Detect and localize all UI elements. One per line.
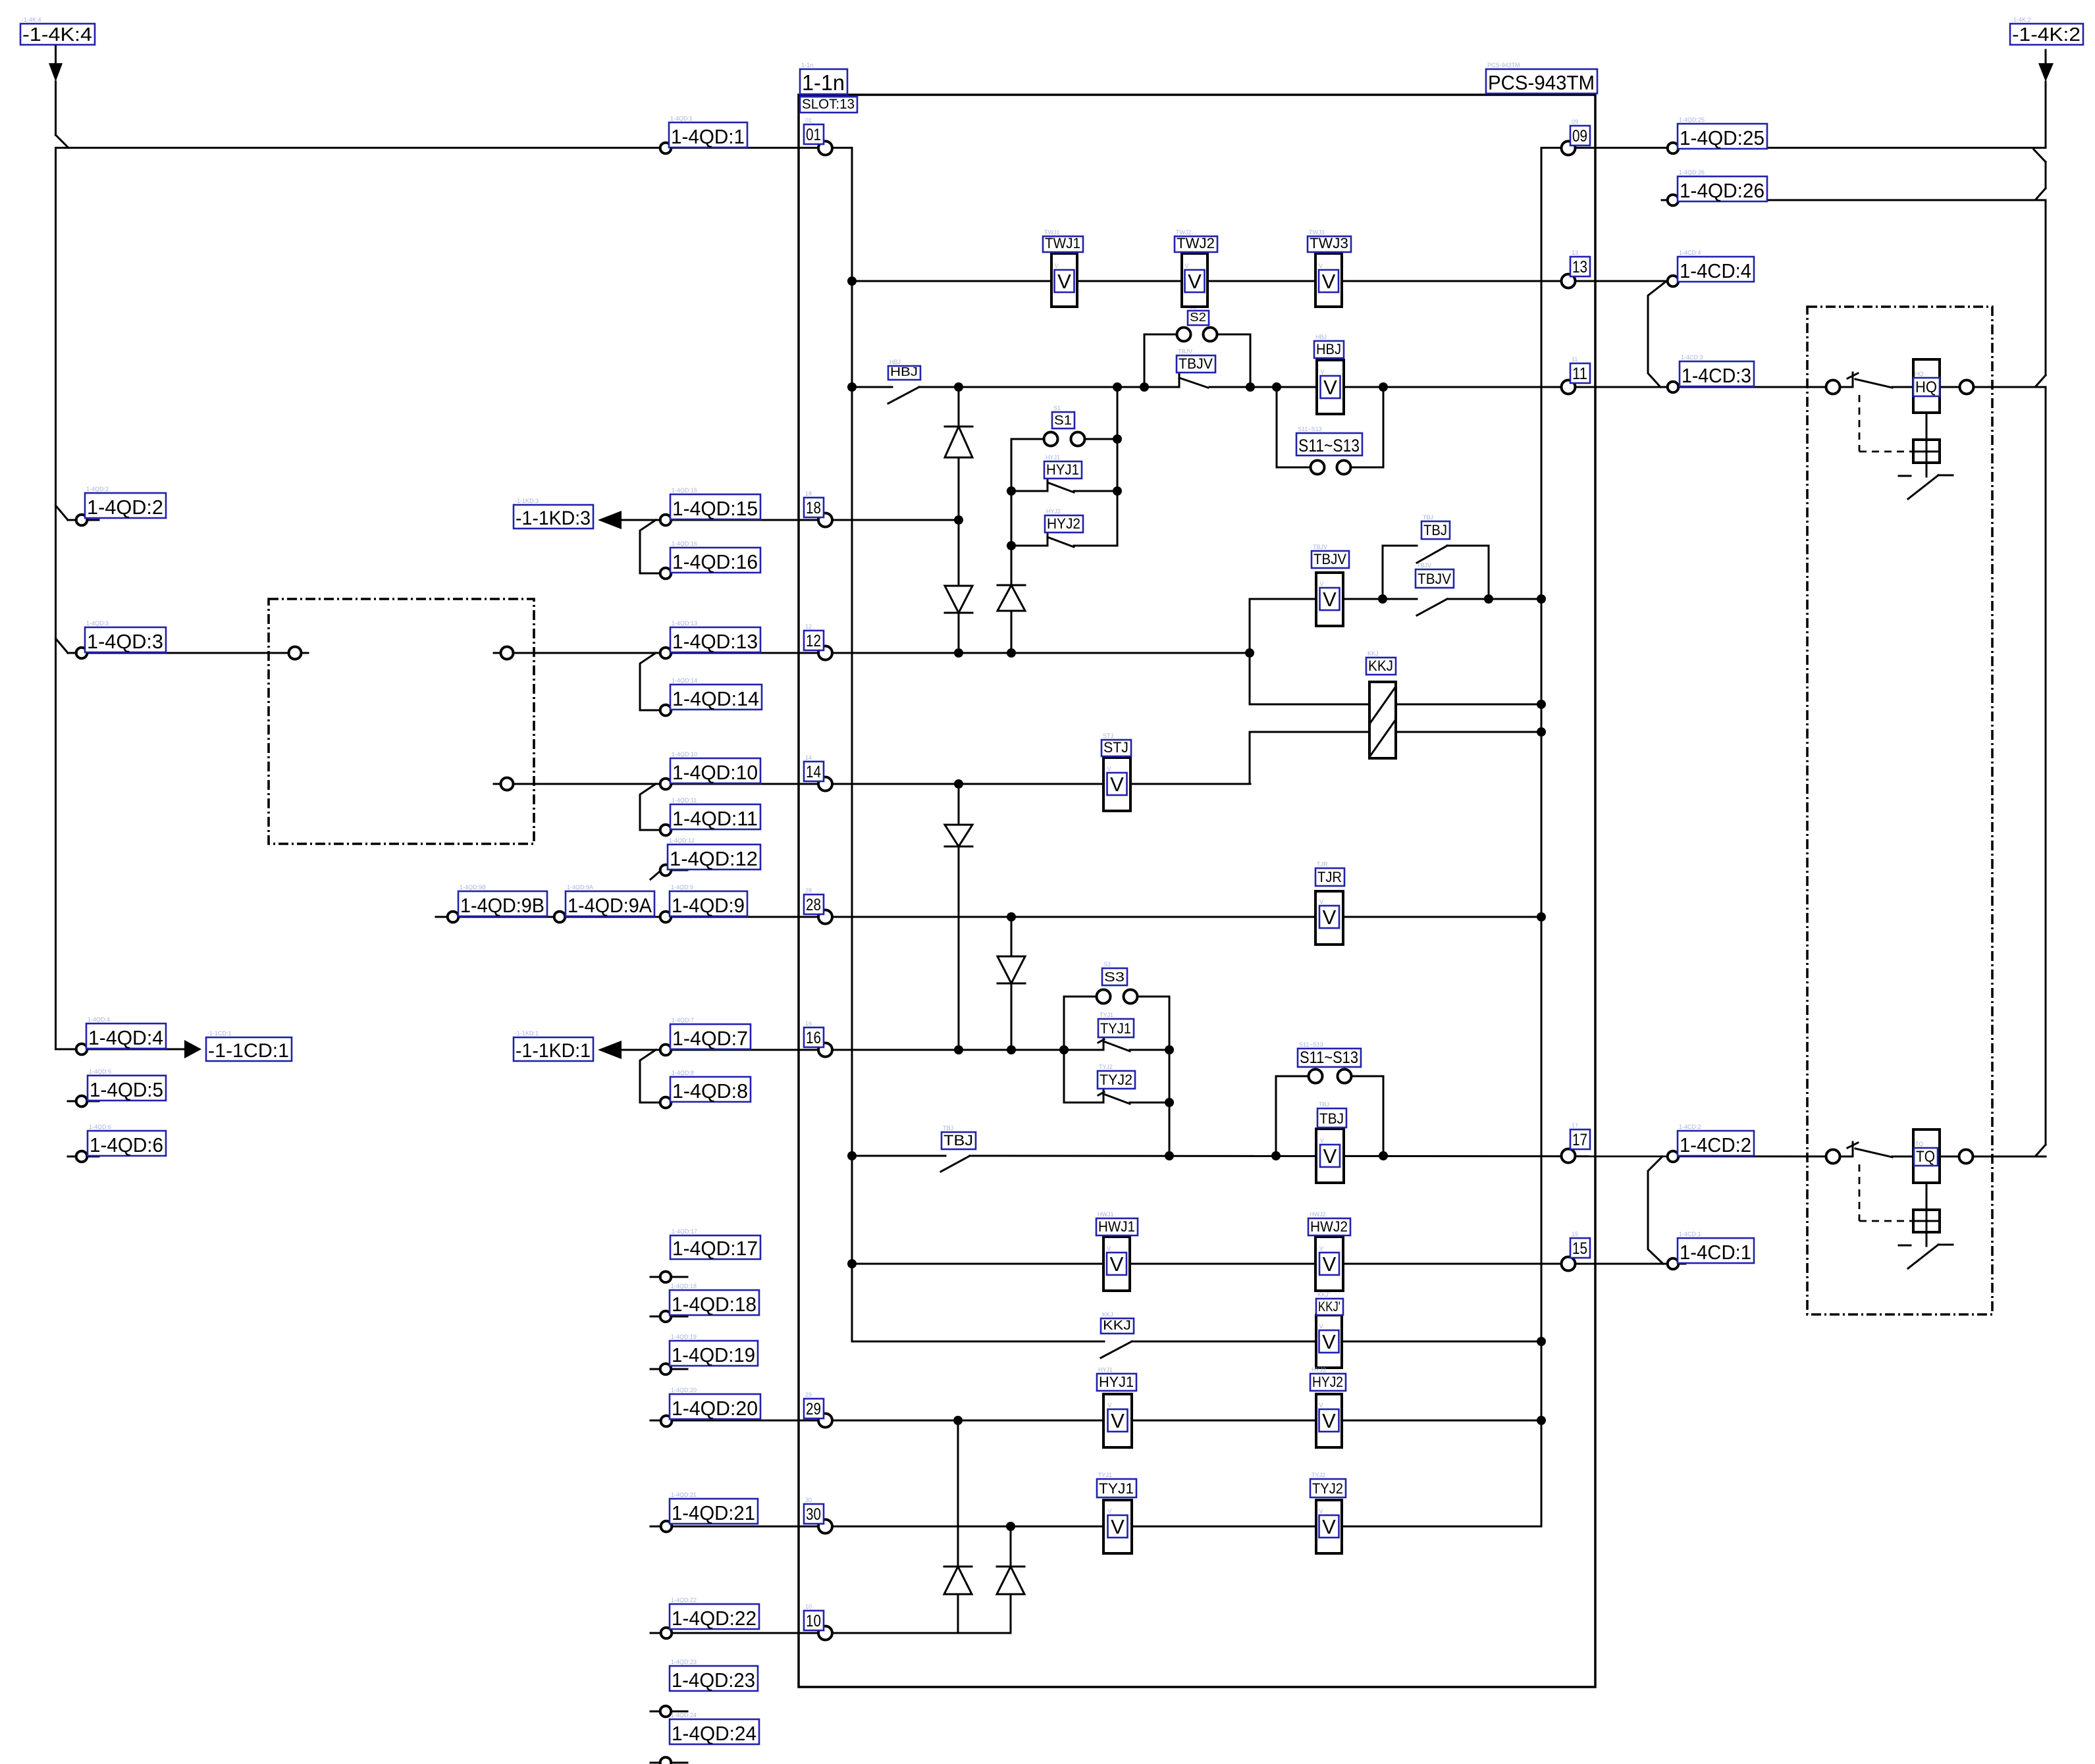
svg-text:TYJ2: TYJ2: [1100, 1072, 1132, 1088]
svg-text:TBJ: TBJ: [1319, 1101, 1329, 1108]
breaker TQ trip contact: [1899, 1245, 1953, 1268]
wire row 16: [622, 1049, 1169, 1051]
svg-text:HYJ2: HYJ2: [1046, 508, 1061, 515]
svg-text:1-1n: 1-1n: [802, 70, 845, 95]
breaker TQ circle left: [1826, 1150, 1840, 1164]
right bus segment 1: [2045, 162, 2047, 188]
wire label 1-4CD:2: [1678, 1124, 1754, 1156]
node dot riser1697 row11: [1113, 382, 1122, 392]
relay coil HYJ2 bottom: [1310, 1366, 1346, 1447]
breaker HQ mechanism square: [1913, 440, 1940, 463]
terminal circle 1-4QD:15: [660, 515, 672, 526]
wire stub 1-4QD:19: [650, 1368, 687, 1370]
svg-text:TBJ: TBJ: [1319, 1110, 1344, 1127]
breaker TQ aux contact: [1847, 1142, 1892, 1157]
node dot row12 x1899: [1245, 648, 1254, 658]
svg-text:TBJV: TBJV: [1313, 544, 1327, 550]
svg-text:1-4QD:20: 1-4QD:20: [672, 1397, 758, 1420]
terminal circle 1-4QD:20: [661, 1416, 672, 1427]
svg-text:S11~S13: S11~S13: [1299, 1041, 1323, 1048]
wire TBJ top branch: [1383, 546, 1489, 599]
switch S3 label: [1102, 961, 1127, 985]
relay coil TJR: [1315, 861, 1344, 945]
svg-text:V: V: [1322, 1515, 1336, 1538]
wire label 1-4QD:14: [670, 677, 762, 710]
svg-text:-1-1CD:1: -1-1CD:1: [207, 1030, 232, 1037]
inner negative bus wire x=1294: [851, 148, 853, 1342]
contact KKJ label: [1101, 1311, 1134, 1334]
svg-text:1-4QD:2: 1-4QD:2: [87, 496, 163, 519]
diode D2 on x1456: [945, 586, 972, 613]
svg-text:1-4QD:6: 1-4QD:6: [89, 1124, 111, 1130]
wire jog 1-4QD:2: [56, 506, 99, 520]
right bus segment 3: [2045, 387, 2047, 1145]
wire elbow 1-4QD:11: [640, 784, 659, 830]
breaker HQ circle right: [1960, 380, 1974, 394]
wire label 1-4QD:7: [670, 1017, 751, 1050]
wire elbow 1-4QD:16: [640, 520, 659, 573]
svg-text:30: 30: [806, 1505, 821, 1524]
wire label 1-4QD:20: [670, 1387, 760, 1420]
breaker TQ mechanism square: [1913, 1210, 1940, 1232]
breaker coil TQ: [1913, 1129, 1940, 1183]
svg-text:TYJ1: TYJ1: [1100, 1020, 1131, 1037]
arrow to -1-1CD:1: [184, 1030, 292, 1062]
node dot S11 bottom right: [1379, 1151, 1388, 1160]
svg-text:-1-4K:4: -1-4K:4: [22, 16, 41, 23]
svg-text:1-4QD:13: 1-4QD:13: [672, 620, 697, 627]
terminal circle 1-4QD:14: [660, 705, 672, 716]
svg-text:STJ: STJ: [1103, 733, 1113, 739]
svg-text:KKJ: KKJ: [1367, 650, 1379, 657]
terminal number box 11: [1570, 356, 1590, 383]
breaker HQ linkage dashed: [1859, 395, 1912, 452]
terminal circle 1-4QD:18: [660, 1311, 672, 1322]
node dot return bus KKJ lower: [1537, 727, 1546, 737]
wire elbow 1-4QD:8: [640, 1050, 659, 1102]
wire jog right bus to row17: [2036, 1145, 2046, 1156]
svg-text:29: 29: [806, 1400, 821, 1418]
contact HYJ2 label: [1045, 508, 1083, 532]
wire row 1-4QD:1 to terminal 01: [56, 147, 853, 149]
svg-text:V: V: [1111, 1409, 1125, 1432]
svg-text:18: 18: [805, 490, 812, 497]
diode D7 bottom: [997, 1567, 1024, 1594]
node dot HYJ2 left: [1007, 541, 1016, 550]
device terminal 29 circle: [818, 1414, 832, 1428]
svg-text:10: 10: [806, 1612, 821, 1630]
svg-text:1-4QD:11: 1-4QD:11: [672, 807, 758, 830]
svg-text:1-4CD:4: 1-4CD:4: [1680, 259, 1751, 282]
svg-text:13: 13: [1572, 258, 1587, 276]
svg-text:1-4QD:9B: 1-4QD:9B: [460, 894, 544, 917]
breaker TQ lower stem: [1926, 1232, 1928, 1246]
svg-text:V: V: [1185, 263, 1189, 269]
wire row 11 segment c: [1209, 386, 1853, 388]
svg-text:S2: S2: [1190, 311, 1206, 324]
wire label 1-4QD:3: [85, 620, 166, 653]
terminal circle 1-4QD:21: [661, 1521, 672, 1532]
svg-text:17: 17: [1572, 1131, 1587, 1149]
device terminal 10 circle: [818, 1626, 832, 1640]
contact TBJV blade on row 11: [1179, 374, 1208, 388]
node dot S2 left: [1140, 382, 1149, 392]
svg-text:V: V: [1110, 773, 1124, 796]
terminal number box 28: [804, 887, 824, 914]
wire label 1-4QD:9: [670, 884, 747, 917]
svg-text:1-4QD:17: 1-4QD:17: [672, 1228, 697, 1235]
wire row HYJ1 contact: [1011, 490, 1117, 492]
switch S2 label: [1188, 303, 1209, 325]
wire riser x1776: [1169, 997, 1171, 1156]
svg-text:TWJ1: TWJ1: [1045, 235, 1080, 251]
svg-text:TBJV: TBJV: [1178, 348, 1192, 355]
svg-text:01: 01: [806, 126, 821, 144]
contact HBJ label: [888, 359, 920, 380]
terminal circle dashed box left: [289, 647, 302, 660]
svg-text:1-4QD:17: 1-4QD:17: [672, 1237, 758, 1260]
svg-text:1-4QD:23: 1-4QD:23: [671, 1659, 697, 1665]
svg-text:1-4QD:5: 1-4QD:5: [90, 1078, 163, 1101]
svg-text:12: 12: [806, 632, 821, 650]
relay coil STJ: [1101, 733, 1131, 811]
svg-text:12: 12: [805, 623, 812, 630]
svg-text:1-1n: 1-1n: [801, 62, 813, 68]
terminal circle 1-4CD:1: [1668, 1258, 1679, 1270]
svg-text:1-4QD:24: 1-4QD:24: [671, 1712, 697, 1719]
svg-text:TYJ2: TYJ2: [1312, 1472, 1325, 1478]
arrow to -1-1KD:1: [514, 1030, 622, 1062]
source arrow -1-4K:4: [20, 16, 95, 135]
svg-text:V: V: [1322, 1409, 1336, 1432]
svg-text:1-4QD:13: 1-4QD:13: [672, 630, 758, 653]
svg-text:V: V: [1323, 588, 1337, 611]
svg-text:HYJ2: HYJ2: [1047, 515, 1080, 532]
terminal number box 14: [804, 754, 824, 781]
svg-text:V: V: [1323, 376, 1337, 399]
svg-text:1-4QD:26: 1-4QD:26: [1680, 179, 1764, 202]
relay coil HBJ: [1314, 334, 1344, 414]
diode D6 bottom: [944, 1567, 972, 1594]
svg-text:V: V: [1108, 1508, 1112, 1515]
contact HYJ1 label: [1044, 454, 1082, 479]
svg-text:-1-1KD:1: -1-1KD:1: [516, 1040, 591, 1062]
svg-text:HYJ2: HYJ2: [1312, 1366, 1326, 1373]
terminal circle 1-4QD:9: [660, 912, 672, 923]
svg-text:V: V: [1322, 270, 1336, 293]
relay coil TYJ1 bottom: [1097, 1472, 1136, 1553]
terminal number box 18: [804, 490, 824, 517]
switch S11~S13 top circles: [1311, 461, 1351, 475]
wire S11-S13 bottom branch: [1276, 1076, 1383, 1156]
terminal circle 1-4CD:3: [1668, 382, 1679, 393]
svg-text:HQ: HQ: [1915, 378, 1937, 396]
wire stub 1-4QD:9B tick: [436, 916, 445, 918]
svg-text:1-4QD:18: 1-4QD:18: [671, 1283, 697, 1289]
terminal circle 1-4QD:22: [661, 1628, 672, 1639]
dash-dot box switchgear cubicle left: [269, 599, 534, 844]
diode D1 on x1456: [945, 427, 972, 457]
contact KKJ blade: [1101, 1341, 1132, 1358]
svg-text:1-4QD:22: 1-4QD:22: [671, 1597, 697, 1603]
breaker HQ circle left: [1826, 380, 1840, 394]
node dot x1536 row28: [1007, 912, 1016, 921]
svg-text:1-4QD:23: 1-4QD:23: [672, 1669, 755, 1692]
contact TBJV label row 11: [1177, 348, 1215, 373]
svg-text:1-4QD:1: 1-4QD:1: [670, 115, 693, 122]
svg-text:1-4QD:25: 1-4QD:25: [1680, 126, 1764, 149]
wire riser x1898 TBJV-KKJ: [1250, 599, 1369, 704]
contact TYJ2 label: [1098, 1064, 1135, 1089]
svg-text:17: 17: [1572, 1122, 1578, 1129]
breaker TQ linkage dashed: [1859, 1164, 1912, 1221]
svg-text:1-4QD:8: 1-4QD:8: [672, 1070, 694, 1076]
wire riser x1456 lower: [958, 784, 960, 1050]
device label SLOT:13: [800, 97, 857, 113]
wire row 11 segment b: [919, 386, 1179, 388]
terminal circle 1-4QD:19: [660, 1364, 672, 1375]
wire row TBJV segment c: [1447, 598, 1541, 600]
svg-text:TWJ2: TWJ2: [1176, 229, 1192, 236]
source arrow -1-4K:2: [2010, 16, 2083, 146]
wire label 1-4QD:8: [670, 1070, 751, 1102]
node dot bus-HWJ row: [847, 1259, 857, 1268]
terminal circle 1-4CD:25: [1668, 143, 1679, 154]
switch S1 contact circles: [1044, 432, 1085, 446]
wire stub 1-4QD:18: [650, 1316, 687, 1318]
svg-text:1-4QD:12: 1-4QD:12: [669, 837, 695, 844]
node dot S2 right: [1246, 382, 1255, 392]
relay coil HWJ1: [1096, 1211, 1138, 1291]
node dot x1456 row12: [954, 648, 963, 658]
wire label 1-4CD:4: [1678, 249, 1754, 282]
svg-text:HBJ: HBJ: [889, 359, 901, 365]
wire row 1-4QD:4: [56, 1049, 185, 1051]
wire label 1-4QD:4: [86, 1016, 166, 1049]
device label PCS-943TM: [1486, 62, 1597, 94]
wire stub 1-4QD:24: [650, 1762, 687, 1764]
node dot TBJV out: [1378, 594, 1387, 604]
svg-text:V: V: [1320, 1137, 1324, 1144]
terminal circle 1-4CD:4: [1668, 276, 1679, 287]
switch S2 contact circles: [1177, 328, 1217, 342]
svg-text:1-4QD:8: 1-4QD:8: [672, 1079, 748, 1102]
svg-text:TBJ: TBJ: [943, 1125, 953, 1131]
svg-text:1-4QD:4: 1-4QD:4: [88, 1016, 110, 1023]
svg-text:KKJ: KKJ: [1368, 658, 1393, 674]
svg-text:01: 01: [805, 117, 812, 124]
terminal circle 1-4QD:1: [660, 143, 672, 154]
diode D4 on x1456: [945, 825, 972, 846]
wire riser x1535 bottom: [1010, 1526, 1012, 1633]
device label 1-1n: [800, 62, 847, 95]
node dot return bus KKJ2 row: [1537, 1337, 1546, 1346]
terminal circle 1-4QD:23: [660, 1706, 672, 1717]
wire label 1-4QD:18: [670, 1283, 759, 1316]
wire stub 1-4QD:17: [650, 1276, 687, 1278]
svg-text:V: V: [1322, 1330, 1336, 1353]
wire label 1-4CD:1: [1678, 1231, 1754, 1264]
svg-text:KKJ: KKJ: [1103, 1318, 1131, 1333]
wire label 1-4QD:15: [670, 487, 760, 520]
svg-text:V: V: [1110, 1253, 1124, 1276]
svg-text:09: 09: [1572, 127, 1587, 145]
svg-text:TYJ2: TYJ2: [1312, 1480, 1343, 1497]
svg-text:14: 14: [805, 754, 812, 761]
svg-text:1-4QD:5: 1-4QD:5: [89, 1068, 111, 1075]
svg-text:1-4CD:3: 1-4CD:3: [1681, 354, 1703, 361]
breaker HQ lower stem: [1926, 463, 1928, 477]
diode D5 on x1536: [997, 956, 1025, 983]
wire row 11 segment d breaker aux to HQ: [1892, 386, 1913, 388]
wire row 15: [852, 1263, 1685, 1265]
svg-text:1-4QD:14: 1-4QD:14: [672, 677, 697, 684]
wire row 29: [650, 1420, 1541, 1422]
node dot x1536 row16: [1007, 1045, 1016, 1054]
contact TYJ2 blade: [1098, 1090, 1130, 1104]
wire row 10: [650, 1632, 1011, 1634]
svg-text:V: V: [1323, 906, 1337, 929]
device terminal 13 circle: [1562, 274, 1576, 288]
wire stub 1-4QD:6: [68, 1156, 99, 1158]
svg-text:TYJ2: TYJ2: [1099, 1064, 1113, 1070]
node dot S11 top right: [1379, 382, 1388, 392]
svg-text:1-4QD:6: 1-4QD:6: [90, 1133, 163, 1156]
switch S11~S13 bottom label: [1298, 1041, 1361, 1067]
wire riser x1536 lower: [1011, 917, 1013, 1050]
svg-text:V: V: [1321, 369, 1325, 375]
svg-text:S11~S13: S11~S13: [1298, 426, 1322, 432]
terminal circle 1-4QD:4: [76, 1044, 88, 1055]
wire S1 branch: [1011, 438, 1117, 440]
svg-text:1-4CD:2: 1-4CD:2: [1679, 1124, 1701, 1130]
wire row 12 left: [68, 652, 308, 654]
node dot S11 top left: [1272, 382, 1281, 392]
svg-text:1-4QD:9A: 1-4QD:9A: [568, 894, 652, 917]
wire label 1-4QD:26: [1678, 169, 1767, 202]
svg-text:TBJV: TBJV: [1417, 562, 1431, 569]
wire row terminal 09 to 1-4QD:25: [1541, 147, 2046, 149]
svg-text:1-4QD:7: 1-4QD:7: [672, 1027, 748, 1050]
svg-text:TWJ3: TWJ3: [1309, 229, 1325, 236]
breaker TQ circle right: [1959, 1150, 1973, 1164]
svg-text:TBJV: TBJV: [1418, 571, 1451, 587]
node dot x1535 row30: [1006, 1522, 1015, 1531]
svg-text:PCS-943TM: PCS-943TM: [1487, 62, 1520, 68]
relay coil HWJ2: [1308, 1211, 1350, 1291]
svg-text:HYJ1: HYJ1: [1099, 1374, 1134, 1390]
svg-text:V: V: [1319, 1323, 1323, 1330]
svg-text:1-4QD:20: 1-4QD:20: [671, 1387, 697, 1393]
svg-text:V: V: [1319, 1402, 1323, 1409]
wire label 1-4QD:5: [88, 1068, 166, 1101]
svg-text:TQ: TQ: [1916, 1148, 1935, 1166]
svg-text:HYJ1: HYJ1: [1046, 454, 1060, 461]
terminal number box 16: [804, 1020, 824, 1047]
relay coil TWJ3: [1308, 229, 1351, 307]
terminal circle 1-4QD:6: [76, 1151, 88, 1162]
svg-text:TJR: TJR: [1317, 869, 1342, 885]
relay coil TYJ2 bottom: [1310, 1472, 1346, 1553]
wire riser x1456 upper: [958, 387, 960, 653]
node dot return bus TJR row: [1537, 912, 1546, 921]
node dot bus-HBJ row: [847, 382, 857, 392]
node dot return bus TBJV row: [1537, 594, 1546, 604]
wire row 11 segment a: [852, 386, 892, 388]
breaker HQ aux contact: [1847, 373, 1892, 388]
svg-text:09: 09: [1572, 118, 1578, 125]
wire label 1-4QD:11: [670, 797, 760, 830]
svg-text:1-4QD:18: 1-4QD:18: [672, 1293, 756, 1316]
contact TBJ top blade: [1417, 546, 1447, 563]
svg-text:V: V: [1320, 581, 1324, 587]
relay KKJ bistable: [1366, 650, 1396, 758]
device terminal 12 circle: [818, 646, 832, 660]
wire label 1-4QD:13: [670, 620, 760, 653]
wire S2 branch: [1144, 334, 1250, 387]
svg-text:-1-4K:2: -1-4K:2: [2011, 16, 2031, 23]
svg-text:1-4CD:1: 1-4CD:1: [1679, 1231, 1701, 1237]
wire jog QD3: [56, 638, 68, 653]
terminal circle 1-4QD:8: [660, 1097, 672, 1108]
terminal circle 1-4QD:11: [660, 825, 672, 836]
svg-text:TBJV: TBJV: [1313, 551, 1346, 567]
relay coil KKJ2: [1316, 1291, 1343, 1368]
wire stub 1-4QD:12: [650, 870, 687, 879]
svg-text:1-4QD:26: 1-4QD:26: [1679, 169, 1705, 176]
device terminal 15 circle: [1562, 1257, 1576, 1271]
svg-text:-1-1KD:3: -1-1KD:3: [515, 498, 539, 504]
svg-text:1-4CD:1: 1-4CD:1: [1680, 1241, 1751, 1264]
svg-text:S1: S1: [1054, 413, 1072, 428]
relay coil HYJ1 bottom: [1097, 1366, 1136, 1447]
wire label 1-4QD:12: [668, 837, 760, 870]
node dot x1455 row29: [953, 1416, 963, 1425]
node dot riser1697 S1: [1113, 434, 1122, 444]
svg-text:HBJ: HBJ: [1316, 341, 1341, 357]
svg-text:1-4QD:24: 1-4QD:24: [672, 1722, 756, 1745]
contact TBJ mid label: [941, 1125, 976, 1149]
node dot riser1697 HYJ1: [1113, 486, 1122, 496]
wire riser x1536 upper: [1011, 439, 1013, 653]
svg-text:16: 16: [806, 1029, 821, 1047]
svg-text:KKJ: KKJ: [1102, 1311, 1113, 1318]
wire KKJ lower row: [1250, 732, 1541, 784]
svg-text:HBJ: HBJ: [1315, 334, 1327, 340]
wire row 18: [622, 519, 959, 521]
relay coil TBJV: [1312, 544, 1349, 626]
wire elbow 1-4QD:14: [640, 653, 659, 710]
svg-text:1-4QD:11: 1-4QD:11: [672, 797, 697, 804]
svg-text:1-4QD:12: 1-4QD:12: [670, 847, 758, 870]
wire row 30: [650, 1526, 1541, 1528]
node dot HYJ1 left: [1007, 486, 1016, 496]
wire row 1-4QD:26: [1662, 199, 2046, 201]
wire row 11 segment e HQ to right bus: [1940, 386, 2046, 388]
svg-text:28: 28: [805, 887, 812, 894]
svg-text:TWJ3: TWJ3: [1310, 235, 1348, 251]
svg-text:S11~S13: S11~S13: [1298, 436, 1360, 455]
wire row 17 segment c: [1892, 1156, 1913, 1158]
contact TBJ mid blade: [941, 1156, 970, 1172]
svg-text:HYJ2: HYJ2: [1312, 1374, 1343, 1390]
svg-text:1-4CD:2: 1-4CD:2: [1680, 1133, 1751, 1156]
device terminal 28 circle: [818, 910, 832, 924]
node dot bus-TWJ row: [847, 276, 857, 286]
svg-text:TBJ: TBJ: [943, 1132, 973, 1149]
terminal circle 1-4QD:16: [660, 568, 672, 579]
wire label 1-4QD:1: [669, 115, 747, 148]
